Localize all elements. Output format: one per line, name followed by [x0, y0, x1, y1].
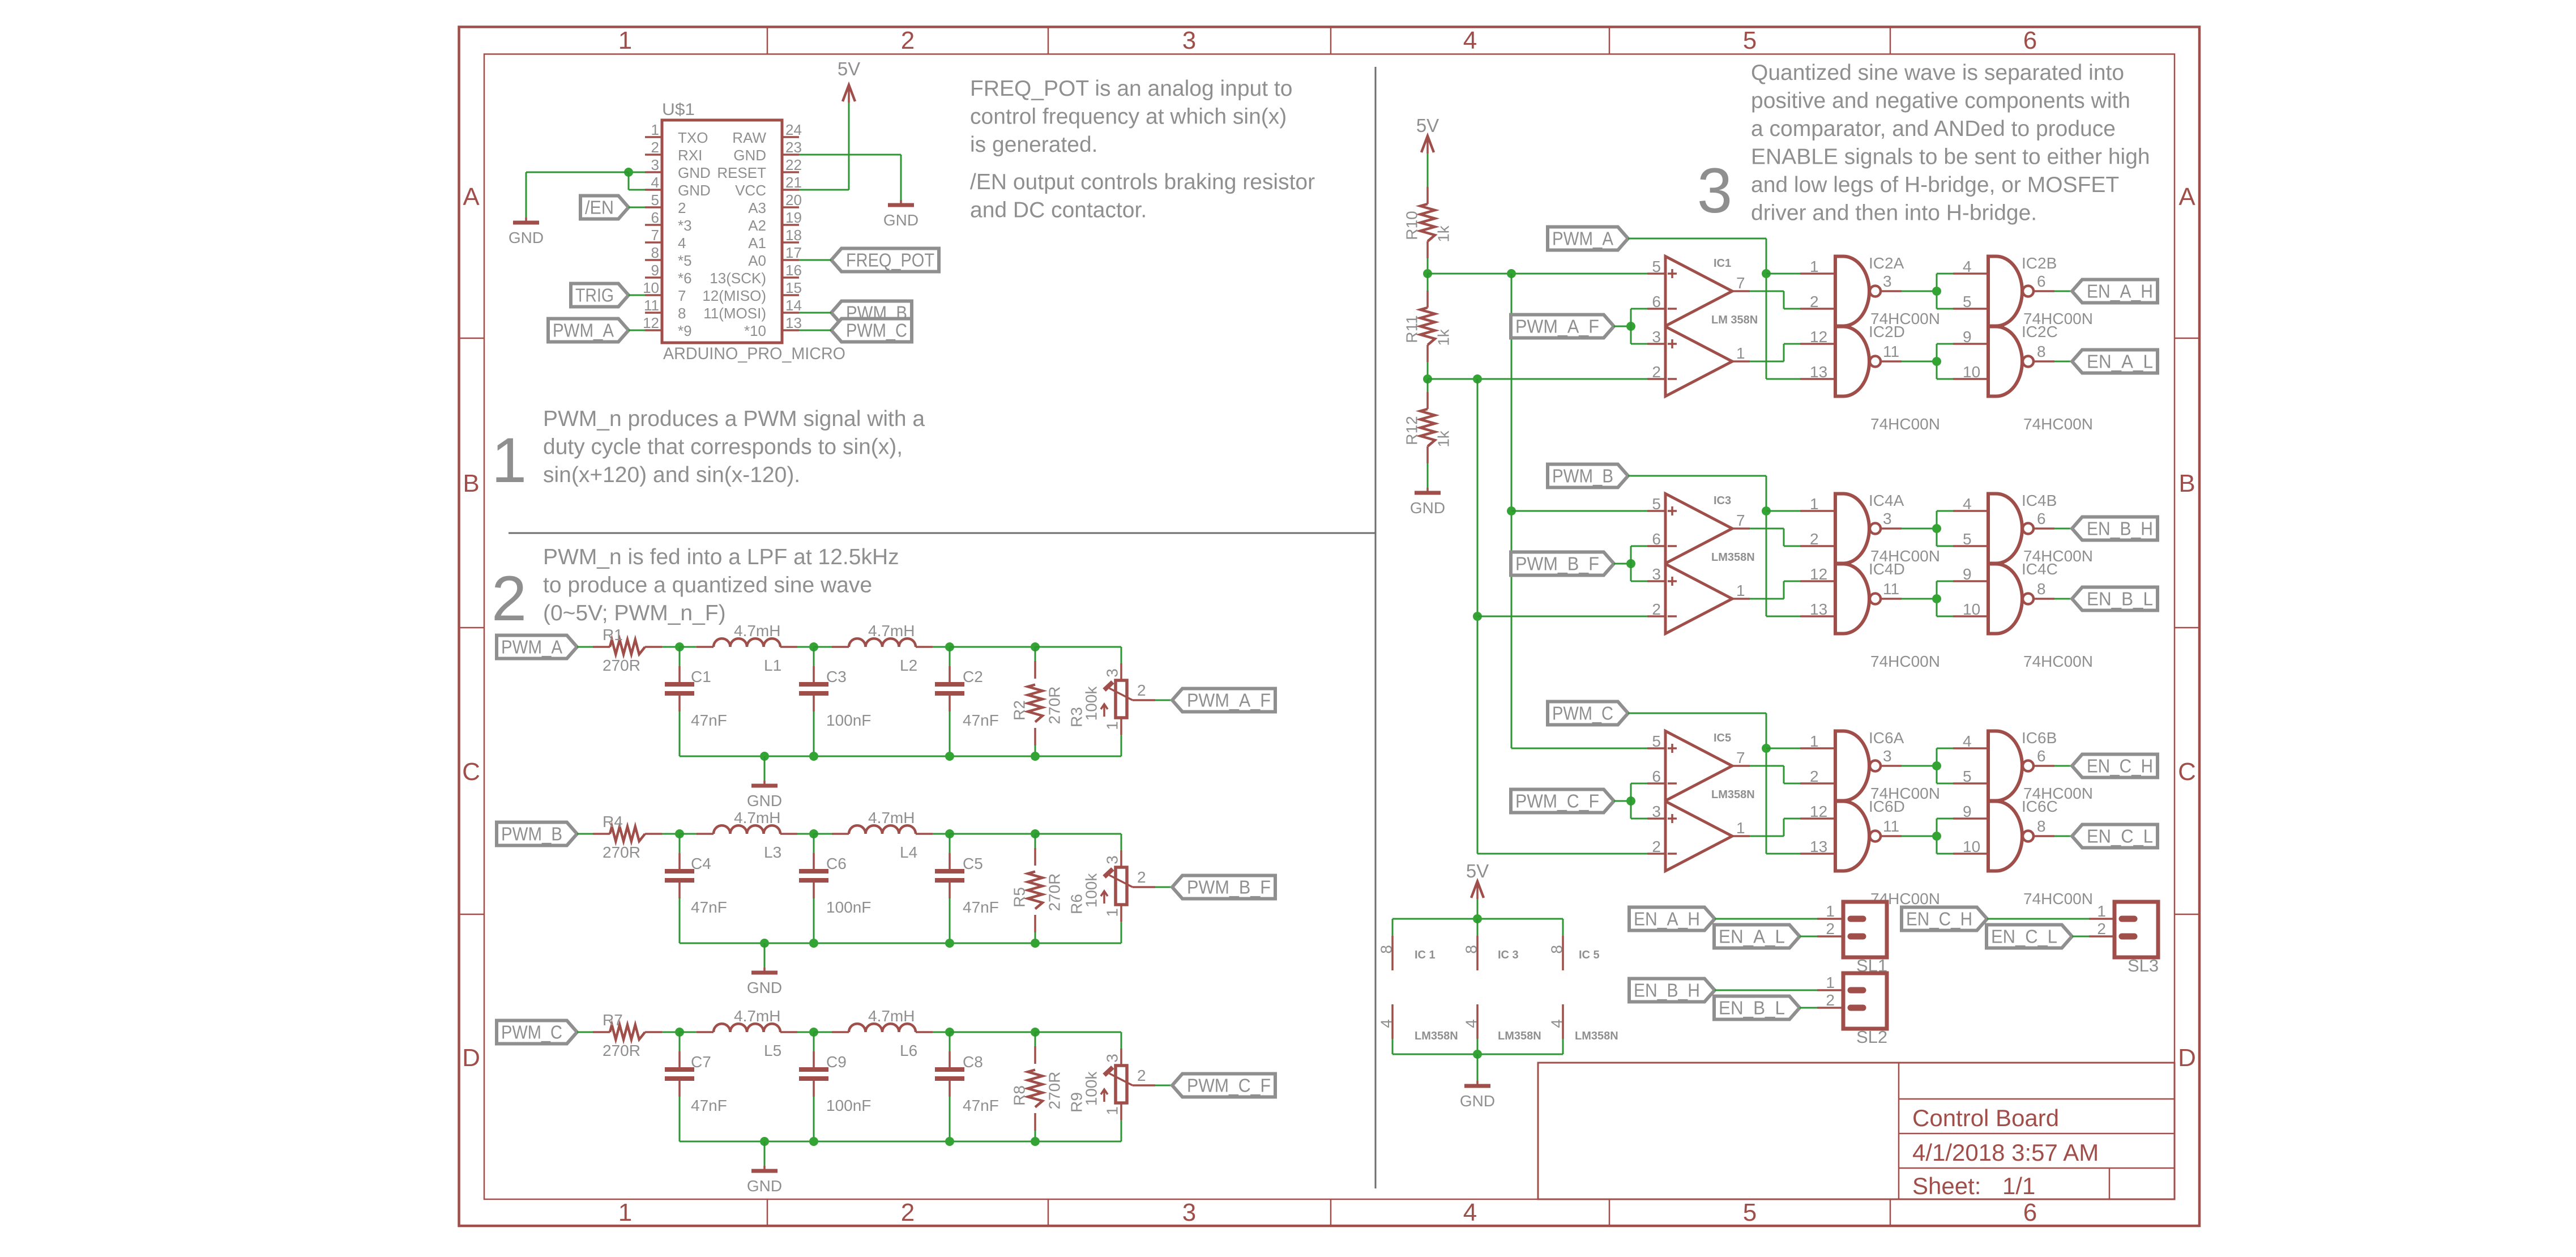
svg-text:9: 9 — [1963, 328, 1972, 346]
svg-text:GND: GND — [678, 182, 711, 199]
svg-text:6: 6 — [651, 209, 659, 226]
wire gate C out to EN flag — [2054, 598, 2072, 600]
arduino right pins 13-24 — [782, 137, 799, 330]
junction bottom rail at C mid — [809, 1137, 818, 1146]
svg-text:positive and negative componen: positive and negative components with — [1751, 89, 2130, 113]
svg-text:6: 6 — [1652, 768, 1661, 785]
net flag EN_A_H — [2072, 280, 2158, 303]
svg-text:8: 8 — [2037, 580, 2046, 598]
bottom rail wire — [680, 943, 1121, 944]
svg-text:IC4B: IC4B — [2022, 492, 2057, 509]
svg-text:1: 1 — [1104, 1106, 1121, 1115]
nand gate IC2B 74HC00N — [1953, 254, 2093, 327]
svg-text:100nF: 100nF — [826, 711, 871, 729]
svg-text:5: 5 — [1652, 732, 1661, 750]
svg-text:14: 14 — [785, 297, 802, 314]
junction node at shunt resistor — [1031, 829, 1040, 838]
vertical section divider — [1375, 67, 1377, 1188]
inductor L2 4.7mH — [814, 622, 950, 674]
horizontal section divider — [509, 532, 1375, 534]
svg-text:and low legs of H-bridge, or M: and low legs of H-bridge, or MOSFET — [1751, 173, 2119, 197]
svg-text:C2: C2 — [963, 668, 983, 685]
junction bottom rail at C right — [945, 1137, 954, 1146]
svg-text:U$1: U$1 — [662, 100, 695, 119]
svg-text:EN_A_L: EN_A_L — [2087, 351, 2153, 372]
svg-text:47nF: 47nF — [963, 898, 999, 916]
svg-text:R1: R1 — [603, 626, 623, 644]
svg-text:1: 1 — [492, 425, 527, 496]
wire PWM_F to pin6 and pin3 — [1631, 309, 1647, 344]
svg-text:IC1: IC1 — [1714, 257, 1731, 270]
svg-text:3: 3 — [1883, 272, 1892, 290]
svg-text:4: 4 — [1548, 1019, 1566, 1028]
op-amp IC1 section B — [1647, 314, 1758, 397]
svg-text:3: 3 — [1652, 328, 1661, 346]
svg-text:R12: R12 — [1403, 416, 1421, 445]
svg-text:4.7mH: 4.7mH — [868, 1007, 915, 1025]
wire pot wiper to flag — [1155, 1085, 1172, 1086]
wire flag to resistor — [577, 646, 593, 648]
junction gate D out — [1932, 594, 1941, 603]
svg-text:1: 1 — [1104, 908, 1121, 917]
svg-text:13: 13 — [1810, 838, 1827, 855]
svg-text:6: 6 — [1652, 293, 1661, 310]
note text FREQ_POT — [970, 76, 1292, 157]
svg-text:270R: 270R — [1046, 873, 1063, 911]
svg-text:*10: *10 — [744, 322, 766, 339]
svg-text:EN_A_H: EN_A_H — [2087, 281, 2153, 302]
svg-text:2: 2 — [1652, 600, 1661, 618]
svg-text:L4: L4 — [900, 843, 917, 861]
svg-text:12: 12 — [1810, 328, 1827, 346]
junction PWM_F — [1626, 322, 1635, 331]
svg-text:B: B — [2178, 470, 2195, 497]
wire node2 to comparator pin2 — [1428, 378, 1647, 380]
note text section 1 — [543, 407, 925, 487]
svg-text:L2: L2 — [900, 657, 917, 674]
wire flag to junction — [1614, 563, 1631, 565]
svg-text:2: 2 — [1826, 991, 1835, 1009]
junction node1 tap — [1507, 269, 1516, 278]
svg-text:7: 7 — [1736, 512, 1745, 529]
svg-text:VCC: VCC — [735, 182, 766, 199]
svg-text:PWM_C: PWM_C — [846, 320, 907, 341]
svg-text:IC4D: IC4D — [1869, 560, 1905, 578]
svg-text:EN_C_H: EN_C_H — [2087, 756, 2153, 777]
net flag PWM_C output — [831, 319, 912, 342]
wire R12 to ground — [1427, 463, 1429, 488]
svg-text:EN_C_H: EN_C_H — [1906, 909, 1972, 930]
svg-text:IC2A: IC2A — [1869, 254, 1904, 272]
svg-text:3: 3 — [1883, 747, 1892, 765]
supply 5V power pins — [1466, 860, 1489, 919]
svg-text:(0~5V; PWM_n_F): (0~5V; PWM_n_F) — [543, 601, 726, 625]
wire 5V to VCC pin21 — [799, 103, 849, 190]
potentiometer R9 100k — [1068, 1049, 1156, 1141]
ground symbol filter — [747, 756, 782, 809]
net flag EN_B_H — [2072, 517, 2158, 540]
svg-text:1k: 1k — [1435, 430, 1453, 448]
svg-text:1/1: 1/1 — [2002, 1173, 2035, 1199]
svg-text:1: 1 — [651, 121, 659, 138]
svg-text:5: 5 — [1743, 1199, 1757, 1226]
wire gate D out to gate C inputs — [1902, 819, 1953, 854]
junction node1 at block B — [1507, 506, 1516, 515]
svg-text:LM358N: LM358N — [1711, 789, 1755, 801]
svg-text:4: 4 — [1378, 1019, 1395, 1028]
wire PWM_F to pin6 and pin3 — [1631, 546, 1647, 581]
svg-text:PWM_C_F: PWM_C_F — [1187, 1075, 1271, 1096]
op-amp IC5 section A — [1647, 731, 1750, 801]
svg-text:D: D — [2178, 1044, 2196, 1072]
svg-text:19: 19 — [785, 209, 802, 226]
wire EN_B_H to SL2 pin1 — [1715, 990, 1843, 991]
svg-text:12: 12 — [1810, 803, 1827, 820]
supply 5V divider chain — [1416, 115, 1439, 187]
wire PWM_A to pin12 — [629, 330, 645, 331]
junction bottom rail at GND — [760, 939, 769, 948]
arduino left pin numbers — [643, 121, 659, 331]
frame row labels right — [2178, 183, 2196, 1072]
capacitor C3 100nF — [799, 647, 871, 756]
junction bottom rail at C mid — [809, 939, 818, 948]
resistor R5 270R vertical — [1011, 834, 1063, 943]
svg-text:1: 1 — [1736, 582, 1745, 599]
ground symbol power section — [1460, 1081, 1495, 1110]
wire /EN to pin5 — [629, 207, 645, 208]
wire PWM_F to pin6 and pin3 — [1631, 783, 1647, 819]
svg-text:4: 4 — [1963, 732, 1972, 750]
wire top rail to pot — [1035, 1032, 1121, 1049]
junction node after resistor — [675, 1028, 684, 1037]
wire comp B out to NAND pin12 — [1750, 344, 1800, 361]
note text /EN — [970, 170, 1315, 223]
wire comp A out to NAND pin2 — [1750, 529, 1800, 546]
svg-text:3: 3 — [1697, 155, 1732, 226]
svg-text:GND: GND — [747, 979, 782, 996]
junction node at shunt resistor — [1031, 1028, 1040, 1037]
net flag PWM_A_F comparator input — [1511, 315, 1614, 338]
bottom rail wire — [680, 1141, 1121, 1143]
svg-text:270R: 270R — [603, 657, 640, 674]
wire PWM to NAND inputs — [1628, 713, 1800, 854]
nand gate IC2D 74HC00N — [1800, 323, 1940, 433]
svg-text:74HC00N: 74HC00N — [2023, 890, 2093, 907]
wire PWM to NAND inputs — [1628, 238, 1800, 379]
svg-text:23: 23 — [785, 139, 802, 156]
svg-text:5: 5 — [1652, 258, 1661, 275]
svg-text:C1: C1 — [691, 668, 711, 685]
svg-text:A: A — [2178, 183, 2195, 211]
svg-text:5: 5 — [1652, 495, 1661, 513]
svg-text:4.7mH: 4.7mH — [734, 809, 780, 826]
svg-text:1: 1 — [618, 27, 632, 54]
wire top rail to pot — [1035, 834, 1121, 850]
svg-text:IC 5: IC 5 — [1579, 949, 1600, 961]
svg-text:PWM_A: PWM_A — [553, 320, 614, 341]
junction bottom rail at shunt R — [1031, 939, 1040, 948]
arduino right pin names — [702, 129, 766, 339]
svg-text:100nF: 100nF — [826, 1097, 871, 1114]
svg-text:EN_B_L: EN_B_L — [1719, 998, 1785, 1019]
svg-text:C: C — [2178, 758, 2196, 786]
svg-text:3: 3 — [1104, 855, 1121, 864]
vertical net node2 to lower blocks — [1477, 379, 1479, 854]
svg-text:TXO: TXO — [678, 129, 708, 146]
svg-text:2: 2 — [651, 139, 659, 156]
wire pin23 GND — [799, 155, 901, 200]
ground symbol left of U$1 — [509, 218, 544, 246]
supply 5V above U$1 — [838, 58, 860, 103]
svg-text:2: 2 — [2097, 920, 2106, 938]
svg-text:RESET: RESET — [717, 164, 766, 181]
net flag EN_B_L — [2072, 587, 2158, 611]
svg-text:duty cycle that corresponds to: duty cycle that corresponds to sin(x), — [543, 435, 903, 459]
svg-text:5: 5 — [1743, 27, 1757, 54]
svg-text:R9: R9 — [1068, 1092, 1086, 1113]
svg-text:FREQ_POT: FREQ_POT — [846, 250, 934, 271]
svg-text:C3: C3 — [826, 668, 847, 685]
svg-text:4: 4 — [678, 235, 686, 252]
wire junction to NAND pin1 — [1766, 273, 1800, 275]
svg-text:/EN output controls braking re: /EN output controls braking resistor — [970, 170, 1315, 194]
svg-text:4: 4 — [1463, 1019, 1480, 1028]
svg-text:8: 8 — [1378, 945, 1395, 954]
svg-text:Control Board: Control Board — [1912, 1105, 2059, 1131]
svg-text:8: 8 — [1463, 945, 1480, 954]
nand gate IC4C 74HC00N — [1953, 560, 2093, 670]
net flag PWM_A — [548, 319, 629, 342]
svg-text:LM358N: LM358N — [1575, 1030, 1618, 1042]
svg-text:R7: R7 — [603, 1011, 623, 1029]
svg-text:1: 1 — [1736, 344, 1745, 362]
wire comp A out to NAND pin2 — [1750, 291, 1800, 309]
wire TRIG to pin10 — [629, 295, 645, 296]
svg-text:L1: L1 — [764, 657, 781, 674]
svg-text:IC4A: IC4A — [1869, 492, 1904, 509]
junction bottom rail at GND — [760, 1137, 769, 1146]
junction node2 at block B — [1473, 612, 1482, 621]
junction PWM_F — [1626, 796, 1635, 806]
svg-text:IC4C: IC4C — [2022, 560, 2058, 578]
svg-text:C7: C7 — [691, 1053, 711, 1071]
svg-text:LM358N: LM358N — [1498, 1030, 1541, 1042]
svg-text:270R: 270R — [1046, 687, 1063, 725]
ground symbol filter — [747, 943, 782, 996]
svg-text:is generated.: is generated. — [970, 133, 1098, 157]
nand gate IC6B 74HC00N — [1953, 729, 2093, 802]
junction bottom rail at C right — [945, 752, 954, 761]
wire top rail to R2 node — [950, 1032, 1035, 1033]
svg-text:A2: A2 — [748, 217, 766, 234]
svg-text:8: 8 — [651, 244, 659, 261]
svg-text:EN_B_L: EN_B_L — [2087, 589, 2153, 610]
wire R11 to node2 — [1427, 362, 1429, 379]
wire EN_B_L to SL2 pin2 — [1800, 1007, 1843, 1009]
wire top rail to R2 node — [950, 833, 1035, 835]
svg-text:PWM_B: PWM_B — [501, 824, 562, 845]
wire power rail bottom — [1392, 1054, 1563, 1055]
capacitor C9 100nF — [799, 1032, 871, 1141]
net flag PWM_C filter input — [497, 1021, 577, 1044]
svg-text:13: 13 — [1810, 600, 1827, 618]
frame row ticks — [459, 338, 2200, 914]
wire junction down to pin4 — [629, 172, 645, 190]
svg-text:16: 16 — [785, 262, 802, 279]
svg-text:*6: *6 — [678, 270, 692, 287]
svg-text:2: 2 — [1826, 920, 1835, 938]
wire comp B out to NAND pin12 — [1750, 819, 1800, 836]
svg-text:IC3: IC3 — [1714, 495, 1731, 507]
wire EN_A_L to SL1 pin2 — [1800, 936, 1843, 938]
junction node after L — [809, 829, 818, 838]
svg-text:EN_A_H: EN_A_H — [1634, 909, 1700, 930]
svg-text:C9: C9 — [826, 1053, 847, 1071]
svg-text:8: 8 — [1548, 945, 1566, 954]
node junction pin3/pin4 — [624, 168, 633, 177]
svg-text:13(SCK): 13(SCK) — [710, 270, 766, 287]
wire pin14 to PWM_B — [799, 312, 831, 314]
svg-text:2: 2 — [1137, 1067, 1146, 1084]
svg-text:RXI: RXI — [678, 147, 702, 164]
ground symbol filter — [747, 1141, 782, 1195]
svg-text:6: 6 — [1652, 530, 1661, 548]
wire gate B out to EN flag — [2054, 291, 2072, 292]
svg-text:6: 6 — [2023, 27, 2037, 54]
nand gate IC2C 74HC00N — [1953, 323, 2093, 433]
inductor L3 4.7mH — [680, 809, 814, 861]
net flag PWM_B filter input — [497, 823, 577, 846]
junction gate A out — [1932, 287, 1941, 296]
wire R10 to node1 — [1427, 258, 1429, 274]
svg-text:ARDUINO_PRO_MICRO: ARDUINO_PRO_MICRO — [663, 344, 845, 363]
wire GND pin3 — [629, 172, 645, 173]
svg-text:74HC00N: 74HC00N — [2023, 653, 2093, 670]
svg-text:12(MISO): 12(MISO) — [702, 287, 766, 304]
wire node2 to IC3 pin2 — [1477, 616, 1647, 617]
svg-text:8: 8 — [2037, 817, 2046, 835]
net flag EN_C_H — [2072, 755, 2158, 778]
svg-text:to produce a quantized sine wa: to produce a quantized sine wave — [543, 573, 872, 598]
nand gate IC6A 74HC00N — [1800, 729, 1940, 802]
frame row labels left — [462, 183, 480, 1072]
wire gate D out to gate C inputs — [1902, 344, 1953, 379]
junction gate A out — [1932, 524, 1941, 533]
power pins 8 of IC1 IC3 IC5 — [1378, 919, 1566, 970]
svg-text:L6: L6 — [900, 1042, 917, 1059]
junction gate A out — [1932, 761, 1941, 770]
wire flag to resistor — [577, 833, 593, 835]
wire power rail to ground — [1477, 1054, 1479, 1081]
junction node after second L — [945, 642, 954, 651]
svg-text:10: 10 — [1963, 838, 1980, 855]
junction PWM_F — [1626, 559, 1635, 568]
junction PWM to NAND pin1 — [1762, 506, 1771, 515]
svg-text:100nF: 100nF — [826, 898, 871, 916]
net flag PWM_C_F — [1172, 1074, 1275, 1097]
connector SL2 — [1826, 973, 1887, 1047]
wire flag to resistor — [577, 1032, 593, 1033]
title block row lines — [1899, 1099, 2175, 1199]
wire A0 to FREQ_POT — [799, 259, 831, 261]
svg-text:22: 22 — [785, 156, 802, 173]
net flag EN_C_H to SL3 — [1902, 907, 1987, 931]
svg-text:4: 4 — [1963, 495, 1972, 513]
svg-text:47nF: 47nF — [963, 1097, 999, 1114]
wire gate A out to gate B inputs — [1902, 274, 1953, 309]
svg-text:PWM_C_F: PWM_C_F — [1515, 791, 1599, 812]
svg-text:4: 4 — [651, 174, 659, 191]
svg-text:4.7mH: 4.7mH — [868, 809, 915, 826]
svg-text:PWM_A_F: PWM_A_F — [1187, 690, 1271, 711]
svg-text:3: 3 — [1652, 565, 1661, 583]
svg-text:8: 8 — [2037, 343, 2046, 360]
svg-text:IC2D: IC2D — [1869, 323, 1905, 340]
wire EN_C_L to SL3 pin2 — [2072, 936, 2114, 938]
net flag /EN — [580, 196, 629, 219]
frame outer border — [459, 27, 2200, 1226]
svg-text:GND: GND — [747, 792, 782, 809]
svg-text:11: 11 — [1883, 343, 1899, 360]
svg-text:a comparator, and ANDed to pro: a comparator, and ANDed to produce — [1751, 117, 2116, 141]
svg-text:C5: C5 — [963, 855, 983, 872]
net flag PWM_B_F comparator input — [1511, 552, 1614, 576]
nand gate IC4B 74HC00N — [1953, 492, 2093, 565]
svg-text:IC5: IC5 — [1714, 732, 1731, 744]
svg-text:74HC00N: 74HC00N — [1870, 415, 1940, 433]
svg-text:*3: *3 — [678, 217, 692, 234]
svg-text:L5: L5 — [764, 1042, 781, 1059]
svg-text:4: 4 — [1463, 27, 1477, 54]
svg-text:17: 17 — [785, 244, 802, 261]
title block outline — [1538, 1063, 2175, 1199]
svg-text:A: A — [463, 183, 480, 211]
svg-text:IC6C: IC6C — [2022, 798, 2058, 815]
svg-text:8: 8 — [678, 305, 686, 322]
svg-text:2: 2 — [1810, 293, 1819, 310]
svg-text:1: 1 — [2097, 902, 2106, 920]
svg-text:2: 2 — [1137, 681, 1146, 699]
net flag EN_A_L to SL1 — [1714, 925, 1800, 948]
svg-text:6: 6 — [2037, 510, 2046, 527]
svg-text:EN_C_L: EN_C_L — [2087, 826, 2153, 847]
svg-text:3: 3 — [1104, 1054, 1121, 1063]
svg-text:12: 12 — [1810, 565, 1827, 583]
wire gate B out to EN flag — [2054, 528, 2072, 530]
svg-text:A1: A1 — [748, 235, 766, 252]
svg-text:EN_B_H: EN_B_H — [1634, 980, 1700, 1001]
wire top rail to R2 node — [950, 646, 1035, 648]
svg-text:4.7mH: 4.7mH — [734, 1007, 780, 1025]
svg-text:Sheet:: Sheet: — [1912, 1173, 1981, 1199]
svg-text:1: 1 — [1736, 819, 1745, 837]
svg-text:PWM_n produces a PWM signal wi: PWM_n produces a PWM signal with a — [543, 407, 925, 431]
svg-text:2: 2 — [678, 199, 686, 216]
svg-text:driver and then into H-bridge.: driver and then into H-bridge. — [1751, 201, 2037, 225]
op-amp IC3 section A — [1647, 494, 1750, 564]
svg-text:270R: 270R — [603, 843, 640, 861]
svg-text:47nF: 47nF — [691, 1097, 727, 1114]
wire node1 to comparator pin5 — [1428, 273, 1647, 275]
wire resistor to node — [662, 1032, 680, 1033]
junction node2 tap — [1473, 374, 1482, 384]
inductor L4 4.7mH — [814, 809, 950, 861]
svg-text:74HC00N: 74HC00N — [2023, 415, 2093, 433]
svg-text:11(MOSI): 11(MOSI) — [703, 305, 766, 322]
op-amp IC5 section B — [1647, 789, 1755, 871]
svg-text:13: 13 — [785, 314, 802, 331]
svg-text:PWM_C: PWM_C — [501, 1022, 562, 1043]
